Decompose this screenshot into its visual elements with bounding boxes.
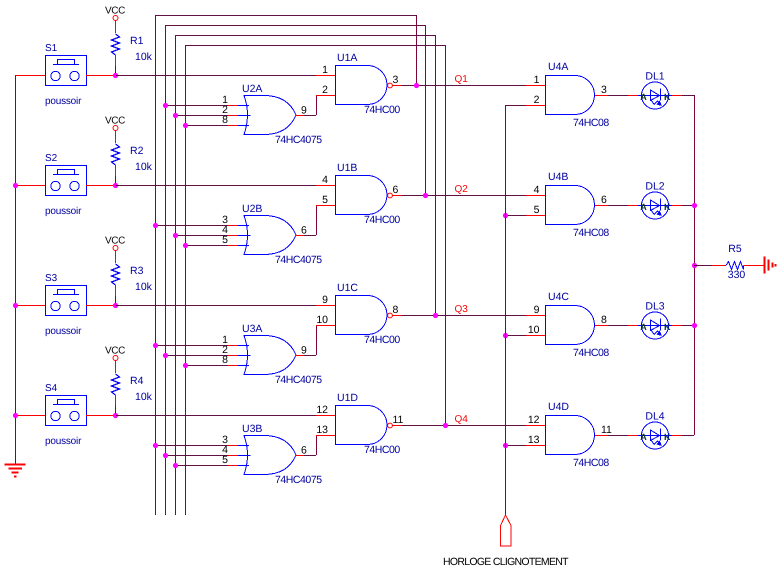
wire LED DL1 cathode [672, 95, 682, 97]
wire OR4 output jog [304, 455, 316, 457]
svg-text:DL3: DL3 [645, 301, 664, 313]
svg-text:5: 5 [222, 234, 228, 246]
svg-text:5: 5 [534, 204, 540, 216]
node S4/R4 junction [113, 413, 118, 418]
wire S2 to U1 input [116, 185, 316, 187]
svg-text:A: A [640, 92, 647, 102]
wire U4 output stub row 2 [595, 205, 608, 207]
svg-text:4: 4 [534, 184, 540, 196]
wire Q2 feedback left vertical (bus) [165, 25, 167, 515]
wire OR input tap y105 [165, 105, 228, 107]
wire right bus to R5 [694, 265, 712, 267]
wire R2 bottom stub [115, 165, 117, 176]
wire U4 pin1 stub row 1 [526, 85, 545, 87]
svg-text:10k: 10k [135, 51, 153, 63]
wire OR input tap y365 [185, 365, 228, 367]
wire clock branch row 4 [505, 445, 526, 447]
wire net Q4 [402, 425, 526, 427]
svg-text:U1C: U1C [337, 282, 358, 294]
node clock junction row 2 [503, 213, 508, 218]
svg-text:poussoir: poussoir [45, 436, 82, 447]
wire Q4 feedback left vertical (bus) [185, 45, 187, 515]
wire Q2 feedback top horizontal [165, 25, 426, 27]
svg-text:Q1: Q1 [455, 74, 469, 85]
node tap junction (185,365) [183, 363, 188, 368]
wire OR3 output jog [304, 355, 316, 357]
svg-text:R4: R4 [130, 375, 144, 387]
resistor R4 10k [112, 374, 153, 403]
wire S2 right stub [86, 185, 115, 187]
svg-text:DL4: DL4 [645, 411, 664, 423]
svg-text:8: 8 [222, 114, 228, 126]
svg-text:5: 5 [322, 194, 328, 206]
push button S1 (poussoir) [45, 43, 87, 107]
wire U4 pin1 stub row 3 [526, 315, 545, 317]
wire net Q2 [402, 195, 526, 197]
svg-text:Q2: Q2 [455, 184, 469, 195]
node tap junction (165,455) [163, 453, 168, 458]
NAND gate U1D (74HC00) [336, 392, 401, 456]
svg-text:10k: 10k [135, 161, 153, 173]
svg-text:VCC: VCC [105, 6, 125, 17]
wire S3 right stub [86, 305, 115, 307]
wire LED DL3 cathode [672, 325, 682, 327]
resistor R3 10k [112, 264, 153, 293]
ground symbol (right) [765, 257, 776, 274]
svg-text:A: A [640, 202, 647, 212]
svg-text:1: 1 [534, 74, 540, 86]
LED DL4 [638, 411, 672, 450]
wire OR input tap y225 [155, 225, 228, 227]
svg-text:VCC: VCC [105, 346, 125, 357]
svg-text:S2: S2 [45, 153, 58, 164]
svg-text:U1B: U1B [337, 162, 357, 174]
svg-text:74HC00: 74HC00 [364, 334, 400, 346]
node clock junction row 3 [503, 333, 508, 338]
wire U1 pin2 stub row 2 [316, 205, 335, 207]
wire U4 output stub row 4 [595, 435, 608, 437]
svg-text:U4B: U4B [548, 171, 568, 183]
wire S4 to U1 input [116, 415, 316, 417]
AND gate U4A (74HC08) [546, 61, 610, 129]
svg-text:K: K [664, 92, 671, 102]
svg-text:poussoir: poussoir [45, 326, 82, 337]
svg-text:10: 10 [316, 314, 328, 326]
svg-text:HORLOGE CLIGNOTEMENT: HORLOGE CLIGNOTEMENT [443, 556, 569, 568]
svg-text:74HC08: 74HC08 [573, 117, 609, 129]
wire U1 pin stub row 3 [316, 305, 335, 307]
wire clock branch row 1 [505, 105, 526, 107]
svg-text:6: 6 [601, 194, 607, 206]
svg-text:Q3: Q3 [455, 304, 469, 315]
wire left ground bus (buttons common) [15, 75, 17, 464]
svg-text:K: K [664, 202, 671, 212]
svg-text:74HC00: 74HC00 [364, 444, 400, 456]
wire U4 pin1 stub row 2 [526, 195, 545, 197]
svg-text:K: K [664, 432, 671, 442]
power VCC symbol (VCC3) [105, 236, 125, 264]
wire R1 bottom stub [115, 55, 117, 66]
ground symbol (bottom left) [5, 465, 26, 477]
node S4 on ground bus [13, 413, 18, 418]
node tap junction (175,115) [173, 113, 178, 118]
power VCC symbol (VCC2) [105, 116, 125, 144]
push button S4 (poussoir) [45, 383, 87, 447]
svg-text:4: 4 [322, 174, 328, 186]
wire R4 bottom stub [115, 395, 117, 406]
svg-text:10k: 10k [135, 281, 153, 293]
wire OR input tap y345 [155, 345, 228, 347]
node tap junction (185,245) [183, 243, 188, 248]
wire U1 pin stub row 2 [316, 185, 335, 187]
node Q1 junction [414, 83, 419, 88]
svg-text:U2B: U2B [242, 203, 262, 215]
node S3 on ground bus [13, 303, 18, 308]
NAND gate U1A (74HC00) [336, 52, 401, 116]
wire net Q3 [402, 315, 526, 317]
wire OR input tap y115 [175, 115, 228, 117]
LED DL3 [638, 301, 672, 340]
svg-text:S1: S1 [45, 43, 58, 54]
svg-text:R1: R1 [130, 35, 144, 47]
svg-text:9: 9 [534, 304, 540, 316]
svg-text:poussoir: poussoir [45, 206, 82, 217]
svg-text:DL1: DL1 [645, 71, 664, 83]
svg-text:U3A: U3A [242, 323, 262, 335]
wire OR1 output jog [304, 115, 316, 117]
wire S4 left stub [15, 415, 45, 417]
NAND gate U1C (74HC00) [336, 282, 401, 346]
push button S2 (poussoir) [45, 153, 87, 217]
svg-text:A: A [640, 432, 647, 442]
svg-text:R2: R2 [130, 145, 144, 157]
svg-text:6: 6 [393, 184, 399, 196]
node Q4 junction [443, 423, 448, 428]
wire to LED DL4 [608, 435, 628, 437]
svg-text:13: 13 [316, 424, 328, 436]
svg-text:330: 330 [728, 269, 746, 281]
svg-text:74HC4075: 74HC4075 [275, 254, 322, 266]
power VCC symbol (VCC4) [105, 346, 125, 374]
OR gate U3A (74HC4075) [238, 323, 322, 386]
wire OR3 output stub [296, 355, 304, 357]
wire U1 output stub row 3 [393, 315, 403, 317]
LED DL2 [638, 181, 672, 220]
svg-text:8: 8 [393, 304, 399, 316]
svg-text:3: 3 [393, 74, 399, 86]
svg-text:74HC00: 74HC00 [364, 104, 400, 116]
node tap junction (175,465) [173, 463, 178, 468]
svg-text:9: 9 [322, 294, 328, 306]
OR gate U3B (74HC4075) [238, 423, 322, 486]
svg-text:U2A: U2A [242, 83, 262, 95]
wire U1 pin stub row 4 [316, 415, 335, 417]
wire OR2 output jog [304, 235, 316, 237]
wire U1 pin stub row 1 [316, 75, 335, 77]
wire clock branch row 2 [505, 215, 526, 217]
svg-text:R3: R3 [130, 265, 144, 277]
svg-text:74HC08: 74HC08 [573, 347, 609, 359]
wire S1 right stub [86, 75, 115, 77]
svg-text:U1A: U1A [337, 52, 357, 64]
wire OR1 output stub [296, 115, 304, 117]
wire S1 to U1 input [116, 75, 316, 77]
NAND gate U1B (74HC00) [336, 162, 401, 226]
svg-text:11: 11 [601, 424, 612, 436]
wire Q4 feedback right vertical [445, 45, 447, 426]
resistor R1 10k [112, 34, 153, 63]
svg-text:74HC4075: 74HC4075 [275, 134, 322, 146]
node S2/R2 junction [113, 183, 118, 188]
wire U1 pin2 stub row 1 [316, 95, 335, 97]
wire Q1 feedback left vertical (bus) [155, 15, 157, 515]
svg-text:U1D: U1D [337, 392, 358, 404]
wire Q3 feedback top horizontal [175, 35, 436, 37]
svg-text:6: 6 [301, 445, 307, 457]
wire Q4 feedback top horizontal [185, 45, 446, 47]
svg-text:12: 12 [528, 414, 540, 426]
svg-text:9: 9 [301, 105, 307, 117]
node Q2 junction [423, 193, 428, 198]
port HORLOGE CLIGNOTEMENT [501, 515, 512, 546]
svg-text:1: 1 [322, 64, 328, 76]
node tap junction (175,235) [173, 233, 178, 238]
svg-text:R5: R5 [728, 243, 742, 255]
svg-text:S3: S3 [45, 273, 58, 284]
svg-text:74HC08: 74HC08 [573, 227, 609, 239]
wire Q3 feedback left vertical (bus) [175, 35, 177, 515]
svg-text:3: 3 [601, 84, 607, 96]
wire U1 pin2 stub row 4 [316, 435, 335, 437]
wire S4 right stub [86, 415, 115, 417]
wire Q3 feedback right vertical [435, 35, 437, 316]
wire R3 bottom stub [115, 285, 117, 296]
push button S3 (poussoir) [45, 273, 87, 337]
wire to LED DL2 [608, 205, 628, 207]
node DL3 on right bus [692, 323, 697, 328]
node tap junction (165,105) [163, 103, 168, 108]
svg-text:10: 10 [528, 324, 540, 336]
svg-text:12: 12 [316, 404, 328, 416]
svg-text:Q4: Q4 [455, 414, 469, 425]
svg-text:2: 2 [534, 94, 540, 106]
wire Q1 feedback right vertical [416, 15, 418, 86]
wire S3 left stub [15, 305, 45, 307]
wire Q2 feedback right vertical [425, 25, 427, 196]
wire U4 output stub row 3 [595, 325, 608, 327]
node tap junction (155,445) [153, 443, 158, 448]
node tap junction (155,225) [153, 223, 158, 228]
svg-text:13: 13 [528, 434, 540, 446]
svg-text:8: 8 [222, 354, 228, 366]
AND gate U4C (74HC08) [546, 291, 610, 359]
svg-text:74HC4075: 74HC4075 [275, 474, 322, 486]
svg-text:U4C: U4C [548, 291, 569, 303]
svg-text:VCC: VCC [105, 116, 125, 127]
wire U4 output stub row 1 [595, 95, 608, 97]
wire net Q1 [402, 85, 526, 87]
OR gate U2A (74HC4075) [238, 83, 322, 146]
wire OR input tap y465 [175, 465, 228, 467]
wire S2 left stub [15, 185, 45, 187]
wire U4 pin1 stub row 4 [526, 425, 545, 427]
svg-text:74HC08: 74HC08 [573, 457, 609, 469]
wire S1 left stub [15, 75, 45, 77]
svg-text:A: A [640, 322, 647, 332]
wire OR4 output stub [296, 455, 304, 457]
wire U1 pin2 stub row 3 [316, 325, 335, 327]
svg-text:8: 8 [601, 314, 607, 326]
svg-text:5: 5 [222, 454, 228, 466]
wire to LED DL3 [608, 325, 628, 327]
node tap junction (165,355) [163, 353, 168, 358]
OR gate U2B (74HC4075) [238, 203, 322, 266]
wire to LED DL1 [608, 95, 628, 97]
resistor R2 10k [112, 144, 153, 173]
svg-text:VCC: VCC [105, 236, 125, 247]
wire LED DL2 cathode [672, 205, 682, 207]
svg-text:74HC4075: 74HC4075 [275, 374, 322, 386]
node tap junction (155,345) [153, 343, 158, 348]
wire OR input tap y355 [165, 355, 228, 357]
svg-text:U4A: U4A [548, 61, 568, 73]
power VCC symbol (VCC1) [105, 6, 125, 34]
wire OR2 output stub [296, 235, 304, 237]
node R5 on right bus [692, 263, 697, 268]
wire U1 output stub row 2 [393, 195, 403, 197]
LED DL1 [638, 71, 672, 110]
wire clock branch row 3 [505, 335, 526, 337]
svg-text:2: 2 [322, 84, 328, 96]
wire OR input tap y445 [155, 445, 228, 447]
svg-text:poussoir: poussoir [45, 96, 82, 107]
node S2 on ground bus [13, 183, 18, 188]
wire S3 to U1 input [116, 305, 316, 307]
AND gate U4B (74HC08) [546, 171, 610, 239]
wire right bus (LED common) [694, 95, 696, 435]
svg-text:U4D: U4D [548, 401, 569, 413]
wire U1 output stub row 4 [393, 425, 403, 427]
wire OR input tap y245 [185, 245, 228, 247]
wire U1 output stub row 1 [393, 85, 403, 87]
node S3/R3 junction [113, 303, 118, 308]
node Q3 junction [433, 313, 438, 318]
svg-text:DL2: DL2 [645, 181, 664, 193]
wire R5 to ground [744, 265, 765, 267]
svg-text:U3B: U3B [242, 423, 262, 435]
svg-text:11: 11 [393, 414, 404, 426]
wire Q1 feedback top horizontal [155, 15, 417, 17]
wire OR input tap y125 [185, 125, 228, 127]
node clock junction row 4 [503, 443, 508, 448]
svg-text:9: 9 [301, 345, 307, 357]
wire LED DL4 cathode [672, 435, 682, 437]
node DL2 on right bus [692, 203, 697, 208]
wire OR input tap y455 [165, 455, 228, 457]
node tap junction (185,125) [183, 123, 188, 128]
node S1/R1 junction [113, 73, 118, 78]
wire OR input tap y235 [175, 235, 228, 237]
wire clock vertical (horloge) [505, 105, 507, 515]
svg-text:74HC00: 74HC00 [364, 214, 400, 226]
AND gate U4D (74HC08) [546, 401, 610, 469]
svg-text:K: K [664, 322, 671, 332]
svg-text:S4: S4 [45, 383, 58, 394]
svg-text:6: 6 [301, 225, 307, 237]
resistor R5 330 [712, 243, 745, 281]
svg-text:10k: 10k [135, 391, 153, 403]
